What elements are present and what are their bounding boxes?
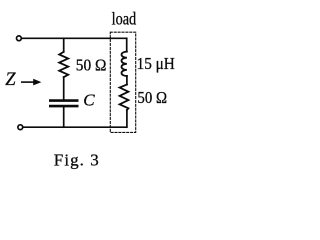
wire left branch middle	[63, 77, 65, 99]
wire left branch lower	[63, 107, 65, 127]
resistor R1 50 ohm zigzag	[59, 52, 68, 77]
capacitor C bottom plate	[50, 105, 77, 108]
svg-text:load: load	[112, 9, 137, 29]
dashed load box	[110, 32, 135, 132]
capacitor C top plate	[50, 99, 77, 102]
wire top horizontal	[22, 37, 127, 39]
terminal top-left	[17, 36, 22, 41]
svg-text:50 Ω: 50 Ω	[137, 88, 167, 107]
svg-text:Fig. 3: Fig. 3	[54, 151, 99, 170]
terminal bottom-left	[18, 125, 23, 130]
svg-text:C: C	[83, 90, 95, 109]
wire left branch upper	[63, 38, 65, 52]
resistor R2 50 ohm load zigzag	[120, 85, 129, 111]
svg-text:15 μH: 15 μH	[137, 54, 175, 73]
inductor L1 15uH coil	[122, 52, 127, 76]
svg-text:Z: Z	[5, 70, 16, 90]
svg-text:50 Ω: 50 Ω	[76, 55, 107, 74]
wire bottom horizontal	[23, 126, 127, 128]
wire load corner top	[126, 38, 128, 51]
wire load bottom	[126, 110, 128, 127]
arrow after Z	[22, 81, 35, 83]
wire load between L and R	[126, 76, 128, 85]
